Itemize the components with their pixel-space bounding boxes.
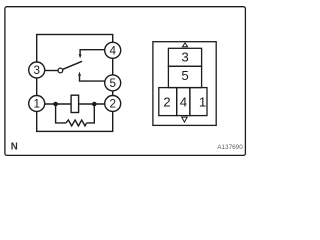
contact arrow toward terminal 4 — [79, 54, 82, 58]
connector key bottom — [182, 117, 188, 122]
terminal 4 — [105, 42, 121, 58]
svg-text:N: N — [11, 141, 18, 152]
pin box 3 — [168, 48, 201, 66]
wire: resistor branch left — [56, 104, 66, 123]
terminal 1 — [29, 96, 45, 112]
svg-text:3: 3 — [33, 64, 40, 77]
wire: resistor branch right — [87, 104, 95, 123]
pin box 4 — [177, 88, 190, 116]
wire: terminal 1 to coil — [45, 103, 71, 105]
connector outline — [153, 42, 216, 126]
svg-text:4: 4 — [180, 95, 187, 110]
pin box 5 — [168, 66, 201, 87]
svg-text:5: 5 — [109, 77, 116, 90]
wire: stub terminal 3 to switch pivot — [45, 70, 58, 72]
wire: upper contact to terminal 4 — [80, 50, 105, 55]
coil L1 — [71, 95, 79, 112]
wire: lower contact to terminal 5 — [80, 76, 106, 81]
svg-text:1: 1 — [33, 98, 40, 111]
svg-text:A137690: A137690 — [217, 144, 243, 151]
svg-text:1: 1 — [199, 95, 206, 110]
svg-text:5: 5 — [181, 68, 188, 83]
svg-text:2: 2 — [109, 98, 116, 111]
terminal 5 — [105, 75, 121, 91]
pin box 2 — [159, 88, 177, 116]
terminal 3 — [29, 62, 45, 78]
switch pivot — [58, 68, 63, 73]
frame border — [5, 7, 246, 156]
contact arrow toward terminal 5 — [78, 72, 81, 76]
switch arm — [63, 61, 82, 69]
svg-text:2: 2 — [163, 95, 170, 110]
resistor R1 — [66, 120, 87, 126]
connector key top — [182, 43, 187, 47]
svg-text:3: 3 — [181, 50, 188, 65]
junction dot right — [92, 102, 97, 107]
svg-text:4: 4 — [109, 44, 116, 57]
junction dot left — [53, 102, 58, 107]
pin box 1 — [190, 88, 207, 116]
wire: coil to terminal 2 — [78, 103, 104, 105]
terminal 2 — [105, 96, 121, 112]
relay body outline — [37, 35, 113, 132]
